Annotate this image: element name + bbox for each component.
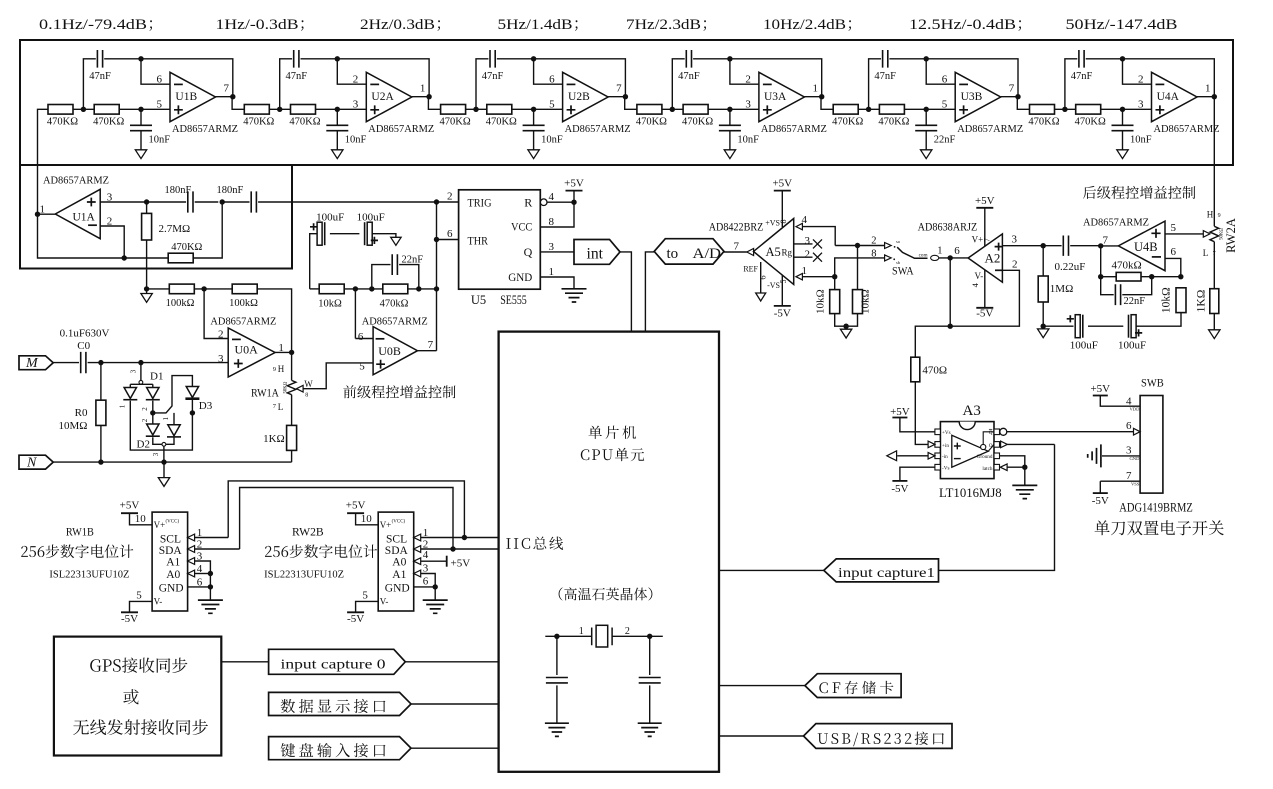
wire (897, 455, 928, 457)
svg-text:to: to (667, 246, 679, 262)
wire (925, 131, 927, 150)
svg-text:int: int (587, 246, 604, 263)
pin 5 (U4B +in) (1171, 222, 1177, 234)
node (U0A output) (289, 350, 294, 355)
resistor 470KΩ (U1B input R1) (47, 105, 78, 128)
capacitor 180nF (input 1) (165, 185, 194, 213)
wire (336, 131, 338, 150)
wire (1043, 325, 1073, 327)
svg-text:10nF: 10nF (1130, 135, 1152, 146)
svg-text:AD8657ARMZ: AD8657ARMZ (1154, 123, 1220, 135)
wire (1007, 431, 1134, 433)
wire (53, 362, 79, 364)
svg-text:10Hz/2.4dB: 10Hz/2.4dB (763, 16, 846, 33)
svg-text:U1A: U1A (73, 212, 96, 224)
svg-text:U5: U5 (471, 293, 486, 307)
wire (337, 59, 366, 84)
wire (195, 573, 211, 575)
resistor 470KΩ (U1B input R2) (93, 105, 124, 128)
svg-text:2: 2 (447, 191, 453, 203)
svg-text:RW1B: RW1B (66, 525, 94, 539)
wire (939, 444, 1055, 570)
svg-text:6: 6 (157, 74, 163, 86)
svg-text:+Vs: +Vs (942, 430, 951, 436)
wire (119, 108, 170, 110)
wire (939, 257, 968, 259)
wire (794, 256, 813, 258)
wire (147, 288, 170, 290)
ground (141, 294, 152, 303)
resistor 470KΩ (U3A input R1) (636, 105, 667, 128)
flag int (574, 240, 620, 265)
svg-text:4: 4 (549, 191, 555, 203)
svg-text:5: 5 (136, 590, 142, 602)
capacitor 10nF (U4A to ground) (1112, 125, 1152, 145)
node (clamp bottom) (161, 459, 166, 464)
node (U4A non-inverting node) (1120, 107, 1125, 112)
ground (SWB) (1088, 444, 1101, 467)
svg-text:3: 3 (805, 235, 811, 247)
capacitor 180nF (input 2) (217, 185, 257, 213)
svg-text:100kΩ: 100kΩ (229, 298, 258, 309)
capacitor 10nF (U3A to ground) (719, 125, 759, 145)
node (A2 feedback / 470Ω tap) (948, 324, 953, 329)
svg-text:+5V: +5V (451, 557, 471, 569)
wire (476, 59, 488, 110)
wire (291, 450, 293, 462)
svg-text:U1B: U1B (175, 91, 197, 103)
pin (A3 +in marker) (928, 441, 935, 448)
wire (421, 560, 447, 562)
label ISL22313UFU10Z (RW2B) (264, 569, 344, 581)
resistor 470KΩ (U2B input R1) (440, 105, 471, 128)
capacitor 22nF (U4B feedback) (1115, 284, 1145, 307)
wire (303, 363, 373, 389)
ground (bias caps) (391, 237, 401, 245)
svg-text:GND: GND (159, 583, 184, 595)
svg-text:+in: +in (942, 443, 949, 449)
capacitor 100uF (U4B gain 2) (1118, 315, 1146, 352)
node (2.7MΩ bottom / bias rail) (144, 286, 149, 291)
resistor 1MΩ (A2 input bias) (1038, 276, 1073, 302)
node (U2A output) (426, 94, 431, 99)
wire (421, 574, 436, 587)
svg-text:+5V: +5V (564, 177, 584, 189)
svg-text:6: 6 (447, 228, 453, 240)
wire (354, 289, 356, 339)
node (U2A non-inverting node) (335, 107, 340, 112)
node (crystal pin1) (554, 634, 559, 639)
wire (1123, 59, 1152, 84)
power +5V (RW2B A0) (447, 556, 471, 570)
wire (301, 59, 430, 97)
label AD8657ARMZ (U1A) (43, 174, 109, 186)
pin 4 (RW1B A0) (188, 563, 203, 577)
IC SWB box (1129, 396, 1162, 494)
svg-text:9: 9 (273, 366, 276, 373)
op-amp U2A (353, 72, 435, 135)
svg-text:U0A: U0A (235, 343, 259, 357)
svg-text:U3A: U3A (764, 91, 787, 103)
svg-text:180nF: 180nF (217, 185, 244, 196)
op-amp U1A (40, 189, 113, 238)
wire (1065, 59, 1077, 110)
wire (100, 226, 124, 258)
wire (356, 513, 379, 525)
node (U4B output) (1098, 243, 1103, 248)
power +5V (RW2B) (346, 500, 366, 514)
capacitor 47nF (U3B feedback) (874, 50, 896, 82)
wire (141, 59, 170, 84)
svg-text:1KΩ: 1KΩ (1195, 290, 1207, 313)
flag USB/RS232接口 (804, 724, 953, 749)
wire (1007, 466, 1025, 468)
node (U3B output) (1015, 94, 1020, 99)
svg-text:10: 10 (135, 513, 147, 525)
svg-text:470kΩ: 470kΩ (1112, 259, 1142, 271)
node (U3A non-inverting node) (727, 107, 732, 112)
capacitor (crystal load left) (546, 678, 568, 683)
wire (73, 108, 94, 110)
resistor 470KΩ (U3A input R2) (682, 105, 713, 128)
capacitor (crystal load right) (639, 678, 661, 683)
power +5V (RW1B) (120, 500, 140, 514)
node (THR tap) (434, 237, 439, 242)
power +5V (U5) (564, 177, 584, 190)
wire (708, 108, 759, 110)
svg-text:AD8657ARMZ: AD8657ARMZ (957, 123, 1023, 135)
svg-text:5: 5 (157, 99, 163, 111)
svg-text:470KΩ: 470KΩ (289, 116, 320, 127)
svg-text:50Hz/-147.4dB: 50Hz/-147.4dB (1066, 16, 1178, 33)
svg-text:1: 1 (802, 265, 808, 277)
node (U3B inverting feedback tap) (924, 56, 929, 61)
wire (146, 202, 148, 213)
node (470kΩ right) (416, 286, 421, 291)
svg-text:+5V: +5V (120, 500, 140, 512)
svg-text:A0: A0 (392, 556, 406, 568)
title 7Hz/2.3dB (626, 16, 706, 33)
svg-text:47nF: 47nF (678, 71, 700, 82)
flag to A/D (654, 239, 724, 264)
wire (124, 257, 168, 259)
node (upper 10kΩ tap) (855, 243, 860, 248)
node (RW1B GND tie) (208, 584, 213, 589)
pin 3 (A2 +in) (1012, 233, 1018, 245)
node (U4A mid junction) (1062, 107, 1067, 112)
svg-text:4: 4 (802, 214, 808, 226)
resistor 470KΩ (U2A input R2) (289, 105, 320, 128)
pin (A3 Qbar bubble) (1000, 428, 1007, 435)
power +5V (A2) (975, 195, 995, 208)
svg-text:AD8657ARMZ: AD8657ARMZ (210, 315, 276, 327)
svg-text:AD8657ARMZ: AD8657ARMZ (565, 123, 631, 135)
pin 4 (A5 +in) (796, 214, 808, 230)
svg-text:3: 3 (218, 353, 224, 365)
capacitor 22nF (U3B to ground) (915, 125, 955, 145)
IC RW1B box (152, 512, 188, 611)
title 0.1Hz/-79.4dB (39, 16, 152, 33)
node (U2A mid junction) (277, 107, 282, 112)
svg-text:U0B: U0B (378, 344, 401, 358)
label ISL22313UFU10Z (RW1B) (49, 569, 129, 581)
node (U0B inverting tap) (353, 286, 358, 291)
pin 7 (SWB VSS) (1126, 470, 1132, 482)
svg-text:5: 5 (362, 590, 368, 602)
wire (1000, 456, 1025, 485)
pin 4 (A2 V-) (970, 270, 985, 308)
svg-text:470KΩ: 470KΩ (171, 242, 202, 253)
svg-text:10nF: 10nF (737, 135, 759, 146)
wire (573, 191, 575, 203)
wire (915, 326, 950, 357)
svg-text:10: 10 (361, 513, 373, 525)
GPS sync box (54, 637, 221, 756)
svg-text:1: 1 (119, 404, 127, 408)
wire (280, 59, 292, 110)
svg-text:AD8657ARMZ: AD8657ARMZ (43, 174, 109, 186)
capacitor 10nF (U1B to ground) (130, 125, 170, 145)
wire (1088, 325, 1123, 327)
svg-text:+5V: +5V (1090, 383, 1110, 395)
pin 3 (Q) (549, 241, 555, 253)
svg-text:D1: D1 (150, 371, 163, 383)
pin 1 (GND) (549, 266, 555, 278)
label GPS接收同步 (90, 658, 187, 673)
svg-text:6: 6 (757, 275, 767, 279)
wire (100, 363, 102, 401)
title 5Hz/1.4dB (498, 16, 578, 33)
svg-text:5: 5 (549, 99, 555, 111)
svg-text:AD8638ARJZ: AD8638ARJZ (918, 220, 978, 234)
wire (915, 382, 928, 445)
svg-text:-5V: -5V (774, 308, 791, 320)
svg-text:U4B: U4B (1134, 240, 1158, 254)
wire (719, 685, 805, 687)
wire (1070, 245, 1101, 247)
svg-text:AD8422BRZ: AD8422BRZ (709, 220, 764, 234)
svg-text:1MΩ: 1MΩ (1050, 283, 1073, 295)
svg-text:AD8657ARMZ: AD8657ARMZ (368, 123, 434, 135)
pin 5 (RW2B V-) (362, 590, 368, 602)
label 或 (123, 689, 138, 704)
svg-text:47nF: 47nF (482, 71, 504, 82)
svg-text:6: 6 (942, 74, 948, 86)
svg-text:R: R (524, 195, 532, 209)
pin 7 (A5 output) (734, 241, 740, 253)
node (A2 output) (948, 255, 953, 260)
wire (421, 537, 499, 539)
no-connect X (pin 2) (813, 253, 822, 262)
wire (804, 96, 821, 98)
power -5V (A2) (976, 308, 993, 320)
capacitor 47nF (U2A feedback) (286, 50, 308, 82)
resistor 10kΩ (SWA lower) (814, 289, 839, 314)
resistor 10kΩ (U0B) (318, 284, 344, 309)
ground (RW2B) (423, 600, 448, 613)
wire (195, 548, 240, 550)
wire (146, 289, 148, 294)
node (U2B inverting feedback tap) (531, 56, 536, 61)
wire (IIC SCL riser) (228, 481, 464, 538)
svg-text:U3B: U3B (961, 91, 983, 103)
svg-text:6: 6 (1126, 420, 1132, 432)
node (D1-D2 junction) (141, 407, 156, 423)
svg-text:H: H (278, 364, 285, 374)
wire (104, 59, 233, 97)
node (U3B mid junction) (866, 107, 871, 112)
ground (REF) (756, 293, 766, 301)
svg-text:Rg: Rg (781, 248, 792, 258)
svg-text:470KΩ: 470KΩ (486, 116, 517, 127)
wire (100, 201, 146, 203)
capacitor C0 0.1uF630V (60, 327, 110, 373)
svg-text:5Hz/1.4dB: 5Hz/1.4dB (498, 16, 573, 33)
svg-text:1: 1 (812, 83, 818, 95)
wire (729, 131, 731, 150)
pin 7 (U4B out) (1103, 235, 1109, 247)
wire (1099, 481, 1101, 493)
svg-text:R0: R0 (75, 407, 88, 419)
node (U1B output) (230, 94, 235, 99)
svg-text:input capture1: input capture1 (838, 566, 935, 581)
flag input capture 0 (269, 649, 406, 674)
ground (U5) (562, 289, 587, 302)
ground (RW2A) (1209, 330, 1220, 339)
CPU unit box (499, 332, 719, 772)
svg-text:L: L (1203, 248, 1209, 258)
svg-text:1: 1 (1205, 83, 1211, 95)
wire (693, 59, 822, 97)
wire (405, 661, 498, 663)
op-amp U3B (942, 72, 1024, 135)
wire (949, 258, 951, 326)
svg-text:-5V: -5V (1092, 495, 1109, 507)
svg-text:-in: -in (942, 454, 948, 460)
wire (1197, 96, 1214, 98)
svg-text:-5V: -5V (347, 613, 364, 625)
wire (889, 59, 1018, 97)
pin 6 (REF) (743, 262, 767, 293)
node (0.22uF left) (1041, 243, 1046, 248)
svg-text:470KΩ: 470KΩ (1028, 116, 1059, 127)
pin 2 (A2 -in) (1012, 258, 1018, 270)
potentiometer RW1A (251, 364, 296, 412)
svg-text:Ground: Ground (977, 454, 993, 460)
wire (794, 243, 813, 245)
IC A3 package (935, 422, 1000, 479)
svg-text:47nF: 47nF (874, 71, 896, 82)
svg-text:1: 1 (162, 416, 170, 420)
wire (232, 97, 244, 110)
svg-text:10kΩ: 10kΩ (1161, 287, 1173, 313)
svg-text:7: 7 (1009, 83, 1015, 95)
wire (649, 685, 651, 722)
label 后级程控增益控制 (1083, 186, 1195, 199)
wire (1086, 59, 1215, 97)
wire (835, 314, 858, 327)
capacitor 100uF (U4B gain 1) (1067, 315, 1098, 352)
svg-text:RW2A: RW2A (1224, 218, 1238, 253)
wire (152, 446, 164, 462)
wire (835, 245, 884, 247)
node (U0A inverting tap) (201, 286, 206, 291)
svg-text:10kΩ: 10kΩ (318, 298, 342, 309)
wire (257, 289, 291, 353)
wire (730, 59, 759, 84)
wire (195, 201, 219, 203)
wire (411, 747, 499, 749)
node (RW2B GND tie) (433, 584, 438, 589)
svg-text:7: 7 (983, 238, 992, 242)
svg-text:A1: A1 (166, 556, 180, 568)
label SWB (1141, 376, 1164, 390)
node (U2A inverting feedback tap) (335, 56, 340, 61)
wire (926, 59, 955, 84)
svg-text:6: 6 (358, 331, 364, 343)
node (clamp top) (138, 360, 143, 365)
diode D3 (185, 387, 212, 413)
op-amp U2B (549, 72, 631, 135)
wire (1042, 326, 1044, 329)
title 2Hz/0.3dB (360, 16, 440, 33)
wire (216, 96, 233, 98)
wire (434, 587, 436, 600)
wire (802, 276, 834, 278)
wire (1165, 233, 1203, 235)
wire (336, 109, 338, 125)
svg-text:180nF: 180nF (165, 185, 192, 196)
IC U5 SE555 box (459, 190, 541, 307)
op-amp U1B (157, 72, 239, 135)
resistor 100kΩ (U0A feedback 1) (166, 284, 195, 309)
svg-text:A/D: A/D (693, 246, 722, 262)
svg-text:0.1Hz/-79.4dB: 0.1Hz/-79.4dB (39, 16, 147, 33)
svg-text:SDA: SDA (385, 545, 409, 557)
wire (724, 251, 747, 253)
power +5V (A5) (772, 177, 792, 190)
svg-text:W: W (304, 379, 313, 389)
wire (316, 108, 367, 110)
svg-text:3: 3 (152, 452, 160, 456)
svg-text:RW1A: RW1A (251, 386, 279, 400)
svg-text:LT1016MJ8: LT1016MJ8 (939, 486, 1002, 500)
svg-text:GND: GND (1129, 456, 1140, 461)
diode (clamp left) (119, 384, 138, 408)
wire (130, 383, 153, 385)
wire (193, 202, 222, 258)
U1A stage box (20, 165, 292, 269)
node (1MΩ bottom) (1041, 324, 1046, 329)
wire (399, 265, 419, 289)
node (SCL join) (462, 535, 467, 540)
wire (310, 234, 317, 289)
wire (100, 426, 102, 463)
svg-text:7: 7 (428, 339, 434, 351)
svg-text:9: 9 (1218, 213, 1221, 219)
svg-text:REF: REF (743, 264, 758, 273)
ground (1MΩ) (1038, 329, 1049, 338)
capacitor 47nF (U3A feedback) (678, 50, 700, 82)
wire (412, 96, 429, 98)
wire (194, 288, 232, 290)
svg-text:3: 3 (353, 99, 359, 111)
wire (925, 109, 927, 125)
svg-text:2: 2 (805, 249, 811, 261)
wire (620, 252, 631, 332)
wire (1122, 131, 1124, 150)
svg-text:C0: C0 (77, 340, 90, 352)
